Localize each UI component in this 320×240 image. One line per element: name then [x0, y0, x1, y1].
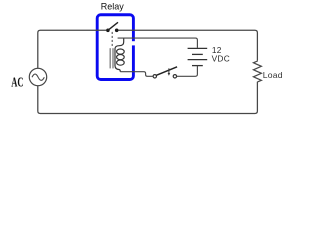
- wire: coil top to battery positive: [118, 38, 198, 48]
- svg-text:Relay: Relay: [101, 1, 125, 11]
- relay contact right dot: [115, 29, 119, 33]
- switch blade: [156, 67, 177, 76]
- coil core line 1: [109, 48, 111, 68]
- wire: top rail from relay contact to load: [119, 30, 258, 60]
- sine wave inside AC source: [32, 74, 44, 80]
- wire: AC top-left loop to relay contact: [38, 30, 106, 68]
- relay contact left dot: [106, 29, 110, 33]
- dashed actuator link: [111, 32, 113, 47]
- relay contact blade: [108, 22, 118, 30]
- wire: switch left terminal to relay coil bottom: [120, 72, 153, 77]
- relay coil: [115, 38, 124, 72]
- svg-text:VDC: VDC: [212, 53, 230, 63]
- relay enclosure box: [97, 15, 133, 80]
- battery B1 12 VDC: [188, 48, 208, 65]
- coil core line 2: [112, 48, 114, 68]
- switch actuation arrow: [168, 68, 170, 73]
- switch S1 left terminal: [153, 75, 156, 78]
- svg-text:Load: Load: [263, 70, 283, 80]
- gap artifact in relay box right edge: [131, 41, 135, 45]
- wire: battery negative down to switch: [177, 66, 198, 77]
- AC source V1: [29, 68, 46, 85]
- svg-text:AC: AC: [11, 74, 23, 89]
- switch S1 right terminal: [173, 75, 176, 78]
- wire: AC bottom, bottom rail, up right side to load: [38, 82, 258, 114]
- load resistor: [253, 60, 261, 82]
